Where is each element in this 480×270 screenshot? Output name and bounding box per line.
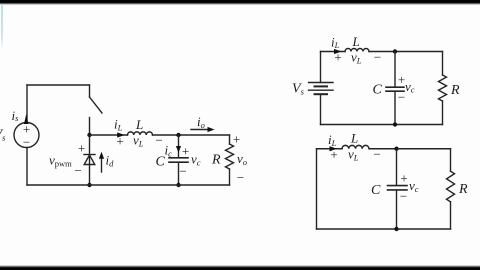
svg-text:ic: ic bbox=[165, 143, 173, 159]
svg-text:Vs: Vs bbox=[0, 128, 6, 143]
svg-text:R: R bbox=[450, 83, 460, 98]
wire: TR bottom rail bbox=[321, 124, 443, 126]
svg-text:+: + bbox=[233, 132, 240, 147]
svg-text:vo: vo bbox=[237, 151, 247, 167]
capacitor C branch lower wire (BR) bbox=[396, 190, 398, 229]
svg-text:vL: vL bbox=[351, 50, 362, 66]
svg-text:−: − bbox=[398, 90, 405, 105]
diode D symbol bbox=[84, 155, 95, 165]
capacitor C plates bbox=[169, 158, 188, 162]
current arrow iL bbox=[117, 132, 125, 137]
resistor R branch lower wire bbox=[229, 169, 231, 185]
wire: main rail node A to inductor bbox=[90, 134, 128, 136]
node D junction dot (capacitor bottom) bbox=[176, 183, 180, 187]
inductor L (BR) bbox=[342, 145, 369, 148]
svg-text:vL: vL bbox=[133, 133, 144, 149]
svg-text:vc: vc bbox=[409, 178, 419, 194]
svg-text:vpwm: vpwm bbox=[49, 153, 72, 169]
current arrow iL (TR) bbox=[334, 49, 342, 54]
resistor R zigzag (TR) bbox=[439, 75, 447, 101]
wire: left circuit top rail from source to switch bbox=[27, 84, 90, 86]
resistor R branch lower wire (BR) bbox=[450, 202, 452, 229]
wire: left circuit left rail lower (source bottom to bottom rail) bbox=[26, 148, 28, 186]
capacitor C branch upper wire (TR) bbox=[394, 52, 396, 88]
svg-text:−: − bbox=[400, 189, 407, 204]
resistor R branch lower wire (TR) bbox=[442, 101, 444, 125]
wire: left circuit left rail upper (source top to top rail) bbox=[26, 85, 28, 123]
resistor R branch upper wire (TR) bbox=[442, 52, 444, 76]
voltage source Vs bbox=[14, 123, 39, 148]
current arrow is bbox=[24, 114, 28, 124]
node A junction dot (diode top) bbox=[87, 133, 91, 137]
inductor L (TR) bbox=[345, 49, 369, 52]
node TR-top junction dot bbox=[393, 49, 397, 53]
capacitor C branch upper wire bbox=[178, 135, 180, 157]
node C junction dot (capacitor top) bbox=[176, 133, 180, 137]
current arrow io bbox=[191, 127, 215, 132]
battery Vs (TR) bbox=[309, 83, 334, 95]
svg-text:−: − bbox=[179, 164, 186, 179]
resistor R branch upper wire bbox=[229, 135, 231, 144]
svg-text:iL: iL bbox=[331, 34, 340, 50]
wire: BR left rail bbox=[316, 149, 318, 229]
svg-text:L: L bbox=[352, 34, 360, 49]
svg-text:R: R bbox=[458, 182, 468, 197]
current arrow iL (BR) bbox=[330, 146, 338, 151]
capacitor C plates (TR) bbox=[386, 87, 404, 91]
svg-text:iL: iL bbox=[114, 117, 123, 133]
wire: TR left rail lower bbox=[320, 94, 322, 124]
capacitor C branch lower wire (TR) bbox=[394, 92, 396, 125]
svg-text:−: − bbox=[74, 163, 81, 178]
svg-text:+: + bbox=[116, 134, 123, 149]
svg-text:+: + bbox=[330, 147, 337, 162]
wire: main rail inductor to resistor corner bbox=[153, 134, 230, 136]
svg-text:vc: vc bbox=[405, 79, 415, 95]
switch SW (open) bbox=[90, 85, 103, 135]
svg-text:+: + bbox=[182, 144, 189, 159]
current arrow id bbox=[99, 152, 104, 172]
svg-text:Vs: Vs bbox=[292, 82, 305, 97]
svg-text:L: L bbox=[135, 117, 143, 132]
resistor R zigzag (BR) bbox=[447, 171, 455, 202]
svg-text:+: + bbox=[400, 171, 407, 186]
svg-text:iL: iL bbox=[328, 132, 337, 148]
wire: left circuit bottom rail bbox=[27, 184, 230, 186]
svg-text:R: R bbox=[211, 153, 221, 168]
svg-text:L: L bbox=[350, 131, 358, 146]
svg-text:vc: vc bbox=[191, 152, 201, 168]
node BR-top junction dot bbox=[394, 147, 398, 151]
svg-text:−: − bbox=[237, 170, 244, 185]
resistor R branch upper wire (BR) bbox=[450, 149, 452, 171]
svg-text:id: id bbox=[106, 153, 115, 169]
svg-text:is: is bbox=[12, 108, 20, 123]
svg-text:C: C bbox=[371, 183, 381, 198]
wire: TR top rail right of inductor bbox=[369, 51, 443, 53]
diode D (freewheeling) branch wire bbox=[89, 135, 91, 185]
wire: BR bottom rail bbox=[317, 228, 451, 230]
capacitor C branch lower wire bbox=[178, 163, 180, 186]
svg-text:io: io bbox=[197, 114, 205, 130]
capacitor C branch upper wire (BR) bbox=[396, 149, 398, 185]
svg-text:vL: vL bbox=[348, 147, 359, 163]
resistor R zigzag bbox=[226, 144, 234, 169]
node TR-bottom junction dot bbox=[393, 122, 397, 126]
svg-text:+: + bbox=[78, 141, 85, 156]
wire: TR top rail left of inductor bbox=[321, 51, 346, 53]
inductor L bbox=[128, 132, 153, 135]
capacitor C plates (BR) bbox=[388, 186, 408, 190]
node B junction dot (diode bottom) bbox=[87, 183, 91, 187]
current arrow ic bbox=[176, 146, 181, 153]
node BR-bottom junction dot bbox=[394, 227, 398, 231]
wire: BR top rail left of inductor bbox=[317, 148, 343, 150]
svg-text:C: C bbox=[156, 155, 166, 170]
wire: BR top rail right of inductor bbox=[369, 148, 451, 150]
svg-text:+: + bbox=[334, 50, 341, 65]
svg-text:C: C bbox=[373, 83, 383, 98]
wire: TR left rail upper bbox=[320, 52, 322, 83]
